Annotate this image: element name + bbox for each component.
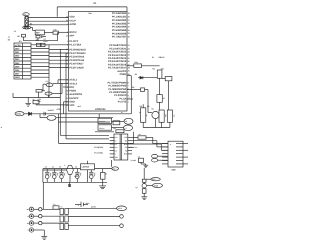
svg-text:5: 5 — [128, 91, 129, 94]
svg-text:P1.0: P1.0 — [152, 178, 156, 181]
svg-text:R3: R3 — [30, 23, 32, 26]
svg-text:D3: D3 — [135, 73, 137, 76]
svg-text:LM7805: LM7805 — [82, 166, 90, 169]
svg-text:450u: 450u — [86, 202, 90, 205]
svg-text:38: 38 — [128, 15, 130, 18]
svg-text:1k: 1k — [33, 98, 35, 101]
svg-text:P3.1(TXD): P3.1(TXD) — [94, 152, 103, 155]
svg-text:104: 104 — [56, 173, 59, 176]
svg-text:25: 25 — [128, 57, 130, 60]
svg-text:LCD1: LCD1 — [15, 44, 21, 47]
svg-text:1: 1 — [128, 100, 129, 103]
svg-text:P3.3/INT1/A6: P3.3/INT1/A6 — [69, 59, 84, 62]
svg-text:C3: C3 — [14, 30, 16, 33]
svg-text:3: 3 — [67, 23, 68, 26]
svg-text:P0.7/AD7/B7: P0.7/AD7/B7 — [112, 36, 127, 39]
svg-text:GND: GND — [154, 184, 159, 187]
svg-text:a: a — [129, 97, 130, 99]
svg-text:R8: R8 — [164, 115, 167, 117]
svg-text:22: 22 — [128, 47, 130, 50]
svg-text:C7: C7 — [125, 127, 127, 130]
svg-text:C9: C9 — [173, 115, 176, 117]
svg-text:AVDD: AVDD — [69, 23, 76, 26]
svg-text:P3.2/INT0/A5: P3.2/INT0/A5 — [69, 56, 84, 59]
svg-text:RELAY: RELAY — [159, 56, 166, 59]
svg-text:XTAL2: XTAL2 — [69, 82, 77, 85]
svg-text:R5: R5 — [140, 105, 142, 108]
svg-text:EA/VPP: EA/VPP — [69, 97, 78, 100]
svg-text:1k: 1k — [145, 115, 148, 117]
svg-text:7: 7 — [128, 85, 129, 88]
svg-text:J1: J1 — [24, 13, 26, 16]
svg-text:30: 30 — [128, 70, 130, 73]
svg-text:P3.0/RXD/AD3: P3.0/RXD/AD3 — [69, 48, 86, 51]
svg-text:VPD: VPD — [69, 104, 74, 107]
svg-text:S9: S9 — [152, 107, 154, 110]
svg-text:Q2: Q2 — [147, 105, 149, 108]
svg-text:P3.5/T1/AD8: P3.5/T1/AD8 — [69, 66, 84, 69]
svg-text:PSEN: PSEN — [120, 73, 127, 76]
svg-text:P3.1/TXD/AD4: P3.1/TXD/AD4 — [69, 52, 86, 55]
svg-text:35: 35 — [128, 26, 130, 29]
svg-text:39: 39 — [128, 12, 130, 15]
svg-text:+: + — [115, 127, 116, 130]
svg-text:104: 104 — [63, 173, 66, 176]
svg-text:100u: 100u — [93, 173, 96, 177]
svg-text:L1: L1 — [27, 215, 29, 218]
svg-text:32: 32 — [128, 36, 130, 39]
svg-text:4x2x14: 4x2x14 — [99, 120, 105, 123]
svg-text:C5+1u: C5+1u — [99, 127, 104, 130]
svg-text:33: 33 — [128, 32, 130, 35]
svg-text:CON2: CON2 — [16, 113, 21, 116]
svg-text:ALE/PROG: ALE/PROG — [69, 93, 82, 96]
svg-text:K1: K1 — [152, 56, 154, 59]
svg-text:AT89C52: AT89C52 — [95, 108, 106, 111]
svg-text:26: 26 — [128, 60, 130, 63]
svg-text:100u: 100u — [49, 173, 52, 177]
svg-text:28: 28 — [128, 67, 130, 70]
svg-text:P1.1/T2EX: P1.1/T2EX — [69, 43, 81, 46]
svg-text:DC12: DC12 — [118, 207, 122, 210]
svg-text:470uF: 470uF — [74, 175, 79, 178]
svg-text:R9: R9 — [17, 35, 19, 38]
svg-text:C6: C6 — [125, 120, 127, 123]
svg-text:1: 1 — [67, 40, 68, 43]
svg-text:R2: R2 — [132, 86, 134, 89]
svg-text:Q1: Q1 — [136, 186, 138, 189]
svg-text:VCLP: VCLP — [69, 19, 76, 22]
svg-text:R7: R7 — [163, 97, 165, 100]
svg-text:R6: R6 — [153, 67, 155, 70]
svg-text:RST: RST — [69, 86, 74, 89]
svg-text:GND: GND — [15, 76, 20, 79]
svg-text:37: 37 — [128, 19, 130, 22]
svg-text:10: 10 — [66, 34, 68, 37]
svg-text:JP1: JP1 — [19, 40, 22, 43]
svg-text:R4k: R4k — [135, 61, 138, 64]
svg-text:PSEN: PSEN — [69, 90, 76, 93]
svg-text:AC9V: AC9V — [91, 206, 97, 209]
svg-text:36: 36 — [128, 22, 130, 25]
svg-text:XTAL1: XTAL1 — [69, 79, 77, 82]
svg-text:P3.0(RXD): P3.0(RXD) — [94, 146, 103, 149]
svg-text:104: 104 — [79, 173, 82, 176]
svg-text:21: 21 — [128, 44, 130, 47]
svg-text:P1.0/T2: P1.0/T2 — [118, 100, 127, 103]
svg-text:T1: T1 — [61, 205, 63, 208]
svg-text:40: 40 — [66, 16, 68, 19]
svg-text:R8: R8 — [8, 38, 10, 41]
svg-text:X1: X1 — [46, 80, 48, 83]
svg-text:P3.4/T0/AD7: P3.4/T0/AD7 — [69, 63, 84, 66]
svg-text:F1: F1 — [54, 203, 56, 206]
svg-text:1N4007: 1N4007 — [48, 109, 54, 112]
svg-text:23: 23 — [128, 51, 130, 54]
svg-text:ATM: ATM — [57, 108, 62, 111]
svg-text:D2-A: D2-A — [44, 40, 49, 43]
svg-text:4x2: 4x2 — [78, 105, 81, 108]
svg-text:XFP: XFP — [69, 35, 74, 38]
svg-text:VDD: VDD — [69, 16, 74, 19]
svg-text:8: 8 — [128, 81, 129, 84]
